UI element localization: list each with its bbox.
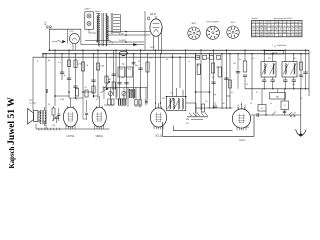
svg-text:0,5M: 0,5M <box>78 64 83 66</box>
svg-text:95: 95 <box>252 29 254 31</box>
svg-text:4: 4 <box>284 25 285 27</box>
svg-text:5k: 5k <box>64 75 66 77</box>
svg-text:0,8: 0,8 <box>299 32 301 34</box>
svg-text:6,3: 6,3 <box>287 22 289 24</box>
svg-text:6,3: 6,3 <box>299 29 301 31</box>
svg-text:2x300V: 2x300V <box>119 40 127 42</box>
svg-text:50: 50 <box>203 59 205 61</box>
svg-text:25k: 25k <box>233 63 236 65</box>
svg-text:W1: W1 <box>162 98 165 100</box>
svg-text:Sockel: Sockel <box>252 18 259 20</box>
svg-text:240: 240 <box>260 35 263 37</box>
svg-text:0,5: 0,5 <box>110 57 113 59</box>
svg-text:1,2: 1,2 <box>256 25 258 27</box>
svg-text:12: 12 <box>272 35 274 37</box>
svg-text:240: 240 <box>275 22 278 24</box>
svg-text:6,3: 6,3 <box>279 25 281 27</box>
svg-text:0,5M: 0,5M <box>60 99 64 101</box>
svg-text:20k: 20k <box>216 67 219 69</box>
svg-text:6,3: 6,3 <box>256 29 258 31</box>
svg-text:7,5: 7,5 <box>252 25 254 27</box>
svg-text:W: W <box>48 104 50 106</box>
svg-text:95: 95 <box>280 35 282 37</box>
svg-text:2,1: 2,1 <box>268 22 270 24</box>
svg-text:0,1: 0,1 <box>129 93 131 95</box>
svg-text:63: 63 <box>256 32 258 34</box>
svg-text:95: 95 <box>260 29 262 31</box>
svg-text:2k: 2k <box>138 61 140 63</box>
svg-text:0,3: 0,3 <box>252 58 255 60</box>
svg-text:An: An <box>48 59 50 62</box>
svg-text:4: 4 <box>268 25 269 27</box>
svg-text:12: 12 <box>280 29 282 31</box>
svg-text:4n: 4n <box>239 59 241 61</box>
svg-text:63: 63 <box>252 22 254 24</box>
svg-text:6,3: 6,3 <box>264 25 266 27</box>
svg-text:0,1: 0,1 <box>212 77 215 79</box>
svg-text:5n: 5n <box>270 103 272 105</box>
svg-text:6,3: 6,3 <box>279 32 281 34</box>
svg-text:2,1: 2,1 <box>264 35 266 37</box>
svg-text:100: 100 <box>225 78 228 80</box>
svg-text:1,2: 1,2 <box>291 25 293 27</box>
svg-text:7,5: 7,5 <box>252 32 254 34</box>
svg-text:220V~: 220V~ <box>85 9 92 11</box>
svg-text:7,5: 7,5 <box>283 29 285 31</box>
svg-text:63: 63 <box>295 32 297 34</box>
svg-text:AZ11: AZ11 <box>151 46 155 49</box>
svg-text:240: 240 <box>260 25 263 27</box>
svg-text:ZF2: ZF2 <box>293 58 296 60</box>
svg-text:240: 240 <box>299 35 302 37</box>
svg-text:2,1: 2,1 <box>299 25 301 27</box>
svg-text:1M: 1M <box>108 79 111 81</box>
svg-text:UL11: UL11 <box>239 139 245 142</box>
svg-text:UCH11: UCH11 <box>67 135 75 138</box>
svg-text:95: 95 <box>276 29 278 31</box>
svg-text:6,3: 6,3 <box>272 32 274 34</box>
svg-text:12: 12 <box>291 29 293 31</box>
svg-text:1n: 1n <box>188 61 190 63</box>
svg-text:Netztr.: Netztr. <box>95 10 101 13</box>
svg-text:40: 40 <box>219 59 221 61</box>
svg-text:20µ: 20µ <box>52 125 55 127</box>
svg-text:1,2: 1,2 <box>287 25 289 27</box>
svg-text:0,5: 0,5 <box>205 101 208 103</box>
svg-text:Dyn.: Dyn. <box>29 100 34 102</box>
svg-text:ZF: ZF <box>274 46 276 48</box>
svg-text:10k: 10k <box>292 84 295 86</box>
svg-text:240: 240 <box>283 32 286 34</box>
svg-text:6,3: 6,3 <box>279 22 281 24</box>
svg-text:50p: 50p <box>213 94 216 96</box>
svg-text:=468 kHz: =468 kHz <box>277 45 286 47</box>
svg-text:AZ 11: AZ 11 <box>150 13 157 16</box>
svg-text:95: 95 <box>268 35 270 37</box>
svg-text:4: 4 <box>265 22 266 24</box>
svg-text:7,5: 7,5 <box>276 25 278 27</box>
svg-text:240: 240 <box>295 35 298 37</box>
svg-text:0,1: 0,1 <box>58 62 61 64</box>
svg-text:gemessen bei 220V~: gemessen bei 220V~ <box>274 18 294 20</box>
svg-text:50: 50 <box>86 65 88 67</box>
svg-text:12: 12 <box>299 22 301 24</box>
svg-text:0,1: 0,1 <box>256 92 259 94</box>
svg-text:2,1: 2,1 <box>291 35 293 37</box>
svg-text:LW: LW <box>186 123 189 125</box>
svg-text:12: 12 <box>276 32 278 34</box>
svg-text:7,5: 7,5 <box>291 32 293 34</box>
svg-text:Lautspr.: Lautspr. <box>29 101 37 104</box>
svg-text:100: 100 <box>206 58 209 60</box>
svg-text:Osz.: Osz. <box>170 93 174 95</box>
svg-text:6,3: 6,3 <box>295 22 297 24</box>
svg-text:130: 130 <box>246 127 249 129</box>
svg-text:80: 80 <box>197 65 199 67</box>
svg-text:4: 4 <box>288 29 289 31</box>
svg-text:240: 240 <box>264 29 267 31</box>
svg-text:0,2: 0,2 <box>96 99 99 101</box>
svg-text:2,1: 2,1 <box>283 22 285 24</box>
svg-text:MW: MW <box>186 119 189 121</box>
svg-text:6,3: 6,3 <box>252 35 254 37</box>
svg-text:0,8: 0,8 <box>295 25 297 27</box>
svg-text:0,1: 0,1 <box>231 92 234 94</box>
svg-text:30: 30 <box>300 98 302 100</box>
svg-text:6,3V~: 6,3V~ <box>119 34 125 36</box>
svg-text:1,2: 1,2 <box>256 35 258 37</box>
svg-text:1,2: 1,2 <box>287 32 289 34</box>
svg-text:0,8: 0,8 <box>291 22 293 24</box>
svg-text:8k: 8k <box>122 77 124 79</box>
svg-text:0,1: 0,1 <box>85 87 88 89</box>
svg-text:ZF1: ZF1 <box>268 58 271 60</box>
svg-text:50: 50 <box>166 59 168 61</box>
svg-text:63: 63 <box>268 32 270 34</box>
svg-text:UCL11: UCL11 <box>155 135 163 138</box>
svg-text:2,1: 2,1 <box>264 32 266 34</box>
svg-text:0,1: 0,1 <box>150 58 153 60</box>
svg-text:5k: 5k <box>246 84 248 86</box>
svg-text:95: 95 <box>256 22 258 24</box>
svg-text:ECH11 EBF11: ECH11 EBF11 <box>207 22 221 24</box>
svg-text:240: 240 <box>260 32 263 34</box>
svg-text:2,1: 2,1 <box>272 25 274 27</box>
svg-text:4: 4 <box>272 22 273 24</box>
svg-text:2,1: 2,1 <box>295 29 297 31</box>
svg-text:0,1: 0,1 <box>76 99 79 101</box>
svg-text:20: 20 <box>250 103 252 105</box>
svg-text:UBF11: UBF11 <box>96 135 104 138</box>
svg-text:0,1M: 0,1M <box>100 66 105 68</box>
svg-text:1,2: 1,2 <box>272 29 274 31</box>
svg-text:+245 V: +245 V <box>271 53 278 55</box>
svg-text:0,8: 0,8 <box>287 35 289 37</box>
svg-text:63: 63 <box>260 22 262 24</box>
